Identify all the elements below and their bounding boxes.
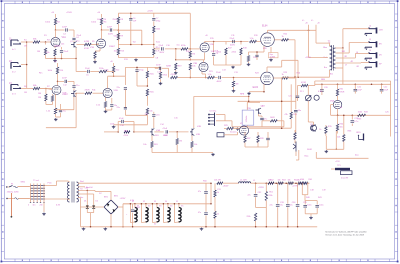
svg-text:47u: 47u: [198, 212, 201, 214]
svg-text:+250V: +250V: [147, 11, 154, 13]
svg-text:400V: 400V: [217, 81, 222, 83]
svg-text:D2: D2: [96, 201, 98, 203]
svg-text:560R: 560R: [307, 149, 312, 151]
svg-text:htr: htr: [154, 223, 157, 226]
svg-text:0: 0: [28, 205, 29, 207]
svg-text:Schematic for Valmont_4W-PP tu: Schematic for Valmont_4W-PP tube amplifi…: [325, 230, 367, 233]
svg-text:J6: J6: [369, 50, 371, 52]
svg-text:V2: V2: [143, 201, 145, 203]
svg-text:47k: 47k: [284, 114, 287, 116]
svg-text:470R: 470R: [340, 92, 345, 94]
svg-text:470R: 470R: [85, 90, 90, 92]
svg-text:10k: 10k: [340, 127, 343, 129]
svg-text:400V: 400V: [230, 45, 235, 47]
svg-text:heaters: heaters: [230, 131, 237, 134]
svg-text:250k: 250k: [156, 29, 160, 31]
svg-text:47u: 47u: [198, 191, 201, 193]
svg-text:V3B: V3B: [193, 63, 198, 65]
svg-text:Blue: Blue: [323, 47, 327, 49]
svg-text:22n: 22n: [145, 114, 148, 116]
svg-text:V4: V4: [165, 201, 167, 203]
svg-text:10k: 10k: [149, 111, 152, 113]
svg-text:220k: 220k: [268, 195, 272, 197]
svg-text:EL84: EL84: [262, 26, 268, 28]
svg-text:Version 1.01, date: Saturday,: Version 1.01, date: Saturday, 10 Jan 200…: [325, 233, 365, 236]
svg-text:10k: 10k: [278, 180, 281, 182]
svg-text:470R: 470R: [84, 41, 90, 43]
svg-text:100k: 100k: [97, 19, 101, 21]
svg-text:1M: 1M: [192, 54, 195, 56]
svg-text:J5: J5: [369, 39, 371, 41]
svg-text:V5: V5: [176, 201, 178, 203]
svg-text:6.3V: 6.3V: [56, 205, 61, 207]
svg-text:4k7: 4k7: [298, 180, 301, 182]
svg-text:+250V: +250V: [66, 12, 73, 14]
svg-text:22nF: 22nF: [156, 65, 161, 67]
svg-text:1M: 1M: [24, 92, 27, 94]
svg-text:V4B: V4B: [197, 126, 201, 128]
svg-text:Prim: Prim: [48, 183, 52, 185]
svg-text:0.6-0.9V: 0.6-0.9V: [341, 178, 349, 180]
svg-text:V1A: V1A: [62, 36, 67, 39]
svg-text:J4: J4: [369, 25, 371, 27]
svg-text:1.5k: 1.5k: [46, 111, 50, 113]
svg-text:1M: 1M: [38, 97, 41, 99]
svg-text:22uF: 22uF: [384, 90, 389, 92]
svg-text:470R: 470R: [84, 48, 89, 50]
svg-text:V2B: V2B: [114, 90, 119, 92]
svg-text:25u: 25u: [63, 111, 66, 113]
svg-text:25uF: 25uF: [77, 35, 82, 37]
svg-text:1M: 1M: [37, 51, 40, 53]
svg-text:47nF: 47nF: [119, 118, 124, 120]
svg-text:10k: 10k: [194, 144, 197, 146]
svg-text:+285V: +285V: [258, 187, 265, 189]
svg-text:Red: Red: [80, 181, 83, 183]
svg-text:PSU: PSU: [247, 108, 252, 110]
svg-text:470k: 470k: [124, 135, 128, 137]
svg-text:33n: 33n: [298, 110, 301, 112]
svg-text:T1 sel: T1 sel: [33, 180, 39, 182]
svg-text:V1B: V1B: [90, 47, 95, 49]
svg-text:100R: 100R: [270, 117, 275, 119]
svg-text:V3: V3: [154, 201, 156, 203]
svg-text:22u: 22u: [247, 195, 250, 197]
svg-text:10k: 10k: [192, 66, 195, 68]
svg-text:R27: R27: [247, 138, 250, 140]
svg-text:10k: 10k: [143, 144, 146, 146]
svg-text:22nF: 22nF: [85, 68, 90, 70]
svg-text:EL84: EL84: [253, 87, 259, 89]
svg-text:22nF: 22nF: [107, 27, 113, 29]
svg-text:470R: 470R: [301, 82, 306, 84]
svg-text:22nF: 22nF: [62, 27, 68, 29]
svg-text:1M: 1M: [38, 93, 41, 95]
svg-text:400V: 400V: [108, 34, 113, 36]
svg-text:250k: 250k: [149, 92, 153, 94]
svg-text:+270V: +270V: [292, 186, 299, 188]
svg-text:V5A: V5A: [330, 100, 334, 103]
svg-text:22u: 22u: [289, 205, 292, 207]
svg-text:6.3 Vac: 6.3 Vac: [210, 111, 217, 113]
svg-text:6.3V: 6.3V: [130, 200, 135, 202]
svg-text:22u: 22u: [270, 205, 273, 207]
svg-text:1k: 1k: [340, 107, 342, 109]
svg-text:1M: 1M: [179, 141, 182, 143]
svg-text:V4B: V4B: [196, 134, 200, 136]
svg-text:22n: 22n: [117, 107, 120, 109]
svg-text:12AX7: 12AX7: [109, 45, 116, 48]
svg-text:820R: 820R: [166, 66, 171, 68]
svg-text:100u: 100u: [307, 205, 311, 207]
svg-text:230: 230: [40, 205, 43, 207]
svg-text:16R: 16R: [379, 30, 383, 32]
svg-text:22u: 22u: [280, 205, 283, 207]
svg-text:47u: 47u: [264, 119, 267, 121]
svg-text:12AX7: 12AX7: [54, 45, 61, 48]
svg-text:25u: 25u: [76, 85, 79, 87]
svg-text:J7: J7: [369, 59, 371, 61]
svg-text:1M: 1M: [236, 84, 239, 86]
svg-text:100kHz: 100kHz: [246, 116, 248, 123]
svg-text:10k: 10k: [337, 137, 340, 139]
svg-text:100k: 100k: [110, 124, 114, 126]
svg-text:Brn: Brn: [324, 66, 327, 69]
svg-text:22n: 22n: [117, 87, 120, 89]
svg-text:230Vac 50Hz: 230Vac 50Hz: [7, 191, 19, 193]
svg-text:+300V: +300V: [223, 186, 230, 188]
svg-text:10.8W: 10.8W: [270, 56, 276, 58]
svg-text:22nF: 22nF: [216, 72, 221, 74]
svg-text:bias: bias: [355, 155, 359, 157]
svg-text:1M: 1M: [24, 46, 27, 48]
svg-text:Bias: Bias: [305, 156, 309, 158]
svg-text:25uF: 25uF: [64, 51, 69, 53]
svg-text:47nF: 47nF: [163, 128, 168, 130]
svg-text:10k: 10k: [288, 180, 291, 182]
svg-text:220k: 220k: [246, 216, 250, 218]
svg-text:22nF: 22nF: [230, 38, 235, 40]
svg-text:NFB: NFB: [240, 94, 245, 96]
svg-text:100u: 100u: [319, 205, 323, 207]
svg-text:400V: 400V: [160, 52, 165, 54]
svg-text:1k: 1k: [217, 214, 219, 216]
svg-text:250k: 250k: [149, 74, 153, 76]
svg-text:+310V: +310V: [305, 57, 312, 59]
svg-text:L1 10H: L1 10H: [240, 180, 247, 182]
svg-text:25u: 25u: [253, 57, 256, 59]
svg-text:mix: mix: [177, 45, 180, 47]
svg-text:22nF: 22nF: [62, 78, 67, 80]
svg-text:6.3V: 6.3V: [318, 91, 323, 93]
svg-text:10k 2W: 10k 2W: [214, 179, 221, 181]
svg-text:1k: 1k: [217, 192, 219, 194]
svg-text:Red: Red: [297, 73, 301, 75]
svg-text:22uF: 22uF: [357, 90, 362, 92]
svg-text:470k: 470k: [171, 74, 175, 76]
svg-text:1k: 1k: [319, 129, 321, 131]
svg-text:+15V: +15V: [335, 161, 340, 163]
svg-text:470k: 470k: [163, 75, 167, 77]
svg-text:12AT7: 12AT7: [211, 50, 218, 53]
svg-text:115: 115: [33, 205, 36, 207]
svg-text:4.7u: 4.7u: [354, 121, 358, 123]
svg-text:+325V: +325V: [120, 198, 127, 200]
svg-text:NFB: NFB: [321, 79, 326, 81]
svg-text:D1: D1: [84, 201, 86, 203]
svg-text:Brn: Brn: [330, 74, 333, 76]
svg-text:12AX7: 12AX7: [62, 93, 69, 96]
svg-text:R28: R28: [260, 138, 263, 140]
